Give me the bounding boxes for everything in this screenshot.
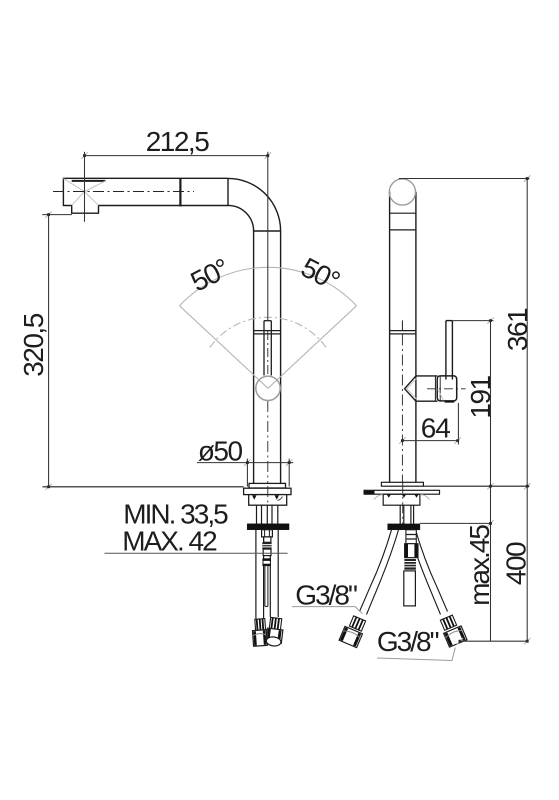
handle centerline xyxy=(427,388,466,390)
svg-text:64: 64 xyxy=(421,413,451,444)
riser tube (right faucet) xyxy=(390,192,416,483)
svg-text:191: 191 xyxy=(465,375,496,418)
right hose end fitting (left faucet) xyxy=(265,617,284,647)
left deck line xyxy=(43,486,244,488)
dimension 64 xyxy=(402,403,458,445)
spout outlet circle (top) xyxy=(389,179,415,205)
tube centerline (right faucet) xyxy=(401,320,403,330)
pull-out rod inside riser xyxy=(264,321,271,376)
handle cone wedge xyxy=(405,376,416,401)
leader G3/8 bottom xyxy=(377,648,455,661)
centerline through base (left faucet) xyxy=(267,486,269,505)
escutcheon plate (left faucet) xyxy=(244,488,291,494)
centerline through base (right faucet) xyxy=(402,482,404,524)
shank lines (left faucet) xyxy=(257,505,278,524)
svg-text:ø50: ø50 xyxy=(198,436,243,467)
spray fan left edge xyxy=(180,306,269,389)
dimension 191 xyxy=(452,321,493,642)
ball joint circle xyxy=(256,376,280,400)
spout joint line xyxy=(179,178,181,206)
pull-out hose (center, below deck) xyxy=(265,566,268,607)
svg-text:max.45: max.45 xyxy=(464,525,495,606)
tube cross lines xyxy=(390,213,416,334)
handle body xyxy=(437,376,457,401)
right supply hose (right faucet) xyxy=(409,530,448,615)
spray fan inner dash-dot arc xyxy=(210,317,326,347)
base collar (left faucet) xyxy=(249,483,286,488)
leader G3/8 left xyxy=(292,607,363,614)
mounting nut (right faucet) xyxy=(388,524,420,530)
spout outline (plan view, left faucet) xyxy=(63,178,228,213)
connector stack below nut xyxy=(262,530,273,537)
riser joint double lines xyxy=(254,331,281,334)
escutcheon screw tabs xyxy=(387,494,391,497)
spray fan outer arc xyxy=(180,267,357,305)
dimension 212,5 xyxy=(85,152,268,321)
svg-text:G3/8": G3/8" xyxy=(377,626,439,657)
right deck line xyxy=(423,485,529,487)
base body screw tabs xyxy=(252,495,257,499)
dimension diameter 50 xyxy=(197,459,293,487)
dimension 361 and 400 line xyxy=(399,179,530,642)
riser centerline segments xyxy=(267,331,269,374)
base body (right faucet) xyxy=(383,494,420,505)
spout elbow outer arc xyxy=(228,178,281,231)
handle lever rod xyxy=(446,321,453,380)
dimension 320,5 xyxy=(42,215,72,487)
center stud stack (right faucet) xyxy=(406,530,416,544)
svg-text:G3/8": G3/8" xyxy=(295,580,357,611)
top plate (right faucet) xyxy=(381,482,423,486)
mounting nut (left faucet) xyxy=(247,524,289,530)
base body (left faucet) xyxy=(249,495,287,506)
svg-text:400: 400 xyxy=(501,542,532,585)
MAX underline xyxy=(105,552,288,554)
svg-text:320,5: 320,5 xyxy=(18,313,49,376)
svg-text:MAX. 42: MAX. 42 xyxy=(122,526,217,557)
dimension max.45 xyxy=(420,522,492,524)
bottom tick line 400 xyxy=(460,640,529,642)
wide escutcheon plate (right faucet) xyxy=(364,490,439,494)
left supply hose (right faucet) xyxy=(360,530,399,615)
riser tube (left faucet) xyxy=(254,231,281,483)
spray head cross marks xyxy=(63,179,105,206)
spout elbow inner arc xyxy=(228,205,254,231)
spout centerline xyxy=(53,191,194,193)
svg-text:212,5: 212,5 xyxy=(146,126,209,157)
escutcheon fillets xyxy=(374,495,383,500)
spray fan right edge xyxy=(268,306,357,389)
right hose fitting (right faucet) xyxy=(440,615,456,630)
left hose end fitting xyxy=(252,619,268,647)
spout aerator inner line xyxy=(72,180,106,182)
svg-text:361: 361 xyxy=(502,308,533,351)
shank lines (right faucet) xyxy=(400,505,413,524)
left hose fitting (right faucet) xyxy=(349,616,365,631)
hose lines (left faucet, below deck) xyxy=(256,530,278,619)
